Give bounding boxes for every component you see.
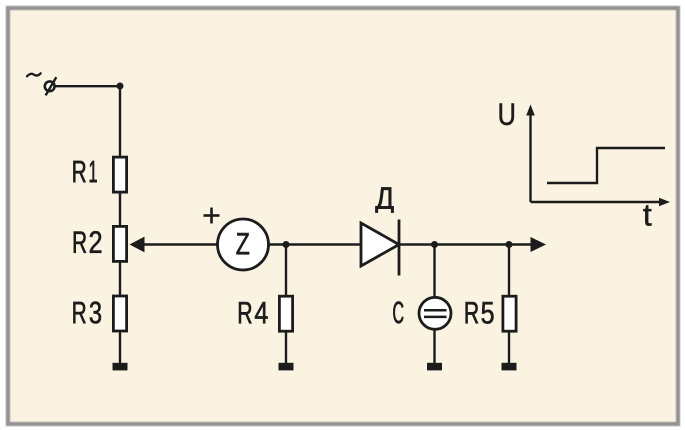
diode label [375,187,393,212]
graph U axis [500,103,535,202]
galvanometer Z [218,219,269,270]
junction top [117,83,124,90]
ground under R4 [279,363,294,371]
wire R1 to R2 [119,193,121,227]
ground under R5 [502,363,517,371]
wiper arrow from Z to R2 [130,237,218,253]
wire Z to diode [269,243,362,245]
wire diode to output arrow [399,243,532,245]
wire C to ground [433,329,435,364]
resistor R3 [73,296,126,331]
wire R2 to R3 [119,262,121,297]
junction at R4 tap [283,241,290,248]
ground under R3 [113,363,128,371]
input terminal [45,77,57,95]
wire junction down to R5 [508,245,510,297]
resistor R5 [466,296,516,331]
junction at R5 [506,241,513,248]
step waveform [547,148,665,183]
diode D [361,220,399,276]
ground under C [427,363,442,371]
output arrowhead [531,237,547,252]
wire junction down to R4 [285,245,287,297]
wire junction down to R1 [119,86,121,158]
resistor R4 [239,296,293,331]
wire junction down to C [433,245,435,299]
wire R5 to ground [508,332,510,364]
graph t axis [531,198,671,226]
wire terminal to junction [55,85,121,87]
wire R4 to ground [285,332,287,364]
junction at C [431,241,438,248]
wire R3 to ground [119,332,121,364]
resistor R1 [73,157,126,192]
capacitor C [393,297,451,329]
AC tilde [27,73,41,76]
plus sign [204,208,220,224]
resistor R2 [74,226,127,261]
